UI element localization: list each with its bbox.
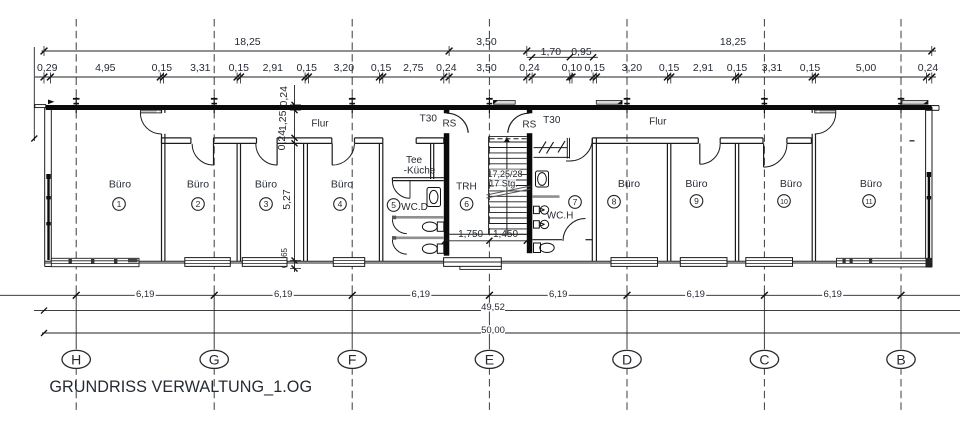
small mark right of building (910, 140, 915, 142)
axis bubble B (887, 350, 915, 368)
svg-text:7: 7 (573, 197, 578, 207)
grid axis H (75, 19, 77, 413)
bottom exterior wall (45, 261, 932, 263)
room label 5 WC.D (387, 199, 428, 213)
svg-text:2: 2 (196, 199, 201, 209)
svg-text:3,50: 3,50 (476, 62, 497, 74)
svg-text:2,91: 2,91 (263, 62, 284, 74)
svg-text:WC.H: WC.H (547, 210, 574, 221)
dimension row 2 (detailed chain) (35, 62, 938, 84)
svg-text:C: C (759, 351, 769, 367)
room label Buero 9 (685, 178, 707, 208)
svg-text:0,24: 0,24 (276, 130, 288, 151)
svg-text:2,75: 2,75 (403, 62, 424, 74)
svg-text:17 Stg.: 17 Stg. (489, 178, 518, 188)
svg-text:0,29: 0,29 (37, 62, 58, 74)
axis bubble D (613, 350, 641, 368)
WC.D stall door 2 (392, 240, 406, 254)
door Buero 1 (leaf + swing arc) (140, 110, 161, 134)
room label Buero 8 (608, 178, 641, 208)
svg-text:Tee: Tee (406, 155, 423, 166)
window Buero 10 (746, 258, 793, 267)
svg-text:6,19: 6,19 (549, 289, 568, 300)
door Buero 3 (256, 143, 277, 165)
svg-text:D: D (622, 351, 632, 367)
svg-text:10: 10 (780, 199, 788, 206)
svg-text:1,450: 1,450 (493, 229, 518, 240)
WC.H urinal 2 (534, 220, 549, 228)
grid axis G (213, 19, 215, 413)
vertical dimension chain (0,24 / 1,25 / 0,24 / 5,27 / 0,365) (276, 85, 301, 272)
svg-text:4: 4 (338, 199, 343, 209)
axis tick crosses on top wall (73, 97, 904, 113)
svg-text:0,24: 0,24 (436, 62, 457, 74)
svg-text:Büro: Büro (187, 178, 209, 190)
svg-text:-Küche: -Küche (404, 165, 436, 176)
svg-text:Büro: Büro (109, 178, 131, 190)
svg-text:Büro: Büro (780, 178, 802, 190)
room label 7 WC.H (547, 196, 582, 222)
svg-text:3,31: 3,31 (190, 62, 211, 74)
svg-text:0,15: 0,15 (584, 62, 605, 74)
bottom dimension row 6,19 (0, 289, 960, 300)
svg-text:6,19: 6,19 (686, 289, 705, 300)
axis bubble E (475, 350, 503, 368)
svg-text:1,70: 1,70 (541, 46, 562, 58)
svg-text:0,15: 0,15 (152, 62, 173, 74)
room label Buero 1 (109, 178, 131, 210)
lintel bar above wall near axis D (596, 100, 622, 104)
bottom dimension row 49,52 (34, 302, 960, 313)
svg-text:50,00: 50,00 (481, 325, 505, 336)
room label 6 TRH (456, 182, 477, 211)
svg-text:Flur: Flur (649, 116, 667, 127)
door Buero 11 (leaf + swing arc) (815, 110, 836, 134)
svg-text:0,15: 0,15 (727, 62, 748, 74)
svg-text:B: B (896, 351, 905, 367)
WC.D toilet 3 (422, 244, 443, 253)
staircase break line (487, 186, 531, 198)
room partition walls (162, 134, 816, 261)
B1 east wall upper stub (162, 110, 165, 143)
door Buero 10 (764, 143, 787, 167)
dimension row 1 (18,25 | 3,50 | 18,25) (41, 36, 936, 56)
svg-text:6,19: 6,19 (274, 289, 293, 300)
svg-text:0,15: 0,15 (800, 62, 821, 74)
top wall right end thin extension (932, 105, 939, 107)
label Tee-Kueche (404, 155, 436, 177)
svg-text:6,19: 6,19 (823, 289, 842, 300)
window band Buero 1 (51, 258, 139, 266)
WC.H toilet (534, 243, 555, 253)
svg-text:RS: RS (442, 119, 456, 130)
svg-text:18,25: 18,25 (234, 36, 260, 48)
svg-text:TRH: TRH (456, 182, 477, 193)
svg-text:T30: T30 (543, 115, 561, 126)
svg-text:T30: T30 (420, 114, 438, 125)
svg-text:8: 8 (612, 197, 617, 207)
svg-text:GRUNDRISS VERWALTUNG_1.OG: GRUNDRISS VERWALTUNG_1.OG (49, 378, 312, 396)
small flag symbol at wall start (48, 100, 54, 105)
svg-text:Büro: Büro (255, 178, 277, 190)
svg-text:0,15: 0,15 (229, 62, 250, 74)
staircase west fire wall (thick) (444, 110, 450, 114)
axis bubble C (750, 350, 778, 368)
dimension row 1b (1,70 | 0,95) (527, 46, 598, 60)
window Buero 2 (185, 258, 231, 267)
svg-text:9: 9 (694, 196, 699, 206)
left exterior wall with window band (45, 108, 52, 267)
svg-text:6,19: 6,19 (136, 289, 155, 300)
WC.H urinal 1 (534, 206, 549, 214)
svg-text:WC.D: WC.D (401, 202, 428, 213)
svg-text:0,15: 0,15 (296, 62, 317, 74)
WC.D stall wall 2 (gray) (392, 236, 444, 240)
grid axis B (900, 19, 902, 413)
WC.H stall wall (gray) (532, 195, 559, 198)
room label Buero 3 (255, 178, 277, 210)
top exterior wall (thick) (46, 105, 932, 110)
svg-text:6: 6 (464, 199, 469, 209)
svg-text:0,15: 0,15 (659, 62, 680, 74)
grid axis D (626, 19, 628, 413)
svg-text:6,19: 6,19 (412, 289, 431, 300)
Tee-Kueche / WC.D divider wall (392, 178, 443, 181)
door WC.H entry (570, 139, 592, 161)
fire door RS right (508, 113, 530, 133)
WC.H handrail / shaft symbol (534, 138, 570, 159)
staircase centre line (506, 137, 508, 235)
svg-text:Büro: Büro (331, 178, 353, 190)
room label Buero 11 (860, 178, 882, 208)
svg-text:0,24: 0,24 (918, 62, 939, 74)
svg-text:0,10: 0,10 (562, 62, 583, 74)
door Buero 9 (700, 143, 720, 164)
top wall left white lintel (35, 105, 46, 108)
WC.D toilet 2 (422, 222, 443, 231)
axis bubble G (200, 350, 228, 368)
lintel bar above wall near axis E (493, 100, 515, 104)
svg-text:3,50: 3,50 (476, 36, 497, 48)
corridor wall segments (double line) (162, 138, 812, 144)
svg-text:G: G (209, 351, 220, 367)
bottom dimension row 50,00 (41, 325, 960, 336)
staircase steps (489, 137, 527, 235)
svg-text:5: 5 (391, 200, 396, 210)
svg-text:0,24: 0,24 (519, 62, 540, 74)
stair text 17,25/28 (490, 169, 521, 177)
door Buero 4 (332, 143, 354, 165)
svg-text:1,750: 1,750 (458, 229, 483, 240)
window Buero 3 (242, 258, 287, 267)
svg-text:49,52: 49,52 (481, 302, 505, 313)
axis bubble F (338, 350, 366, 368)
grid axis E (488, 19, 490, 413)
entrance element below staircase (444, 258, 502, 270)
svg-text:Flur: Flur (311, 119, 329, 130)
dimension extension line, left building corner (33, 47, 35, 141)
WC.H inner wall (532, 239, 562, 241)
stair text 17 Stg. (491, 179, 516, 187)
grid axis F (351, 19, 353, 413)
window Buero 9 (680, 258, 727, 267)
svg-text:Büro: Büro (685, 178, 707, 190)
staircase east fire wall (thick) (527, 110, 533, 114)
staircase top arrow (504, 138, 511, 143)
B11 west wall upper stub (812, 110, 815, 113)
svg-text:0,24: 0,24 (278, 86, 290, 107)
svg-text:0,95: 0,95 (571, 46, 592, 58)
svg-text:3: 3 (264, 199, 269, 209)
svg-text:2,91: 2,91 (693, 62, 714, 74)
right exterior wall with window band (926, 107, 932, 267)
window Buero 4 (333, 258, 364, 267)
WC.D toilet 1 (427, 188, 441, 207)
WC.D stall wall 1 (gray) (392, 216, 444, 220)
axis bubble H (62, 350, 90, 368)
window Buero 8 (611, 258, 658, 267)
staircase dashed headroom line (490, 138, 527, 140)
svg-text:Büro: Büro (618, 178, 640, 190)
svg-text:11: 11 (865, 199, 872, 206)
svg-text:H: H (71, 351, 81, 367)
grid axis C (763, 19, 765, 413)
lintel bar above wall near axis B (902, 100, 928, 104)
WC.D stall door 1 (392, 219, 406, 233)
room label Buero 2 (187, 178, 209, 210)
svg-text:5,27: 5,27 (281, 189, 293, 210)
WC.H inner door arc (563, 219, 586, 242)
svg-text:1,25: 1,25 (277, 110, 289, 131)
room label Buero 4 (331, 178, 353, 210)
svg-text:RS: RS (522, 119, 536, 130)
door Buero 2 (192, 143, 213, 165)
grid axes (dashed vertical lines H..B) (76, 19, 901, 413)
WC.D entry door arc (392, 181, 410, 199)
staircase width dim line (442, 238, 530, 244)
svg-text:0,15: 0,15 (371, 62, 392, 74)
WC.H sink (536, 171, 549, 187)
svg-text:E: E (485, 351, 494, 367)
svg-text:3,20: 3,20 (622, 62, 643, 74)
room label Buero 10 (778, 178, 803, 208)
svg-text:5,00: 5,00 (856, 62, 877, 74)
staircase landing edge (449, 233, 527, 235)
svg-text:F: F (348, 351, 357, 367)
svg-text:1: 1 (117, 199, 122, 209)
svg-text:18,25: 18,25 (720, 36, 746, 48)
svg-text:Büro: Büro (860, 178, 882, 190)
svg-text:3,31: 3,31 (762, 62, 783, 74)
svg-text:3,20: 3,20 (334, 62, 355, 74)
staircase flight left boundary (488, 137, 490, 235)
Tee-Kueche east wall (431, 143, 434, 179)
window band Buero 11 (837, 258, 932, 267)
svg-text:4,95: 4,95 (95, 62, 116, 74)
fire door RS left (447, 113, 469, 133)
